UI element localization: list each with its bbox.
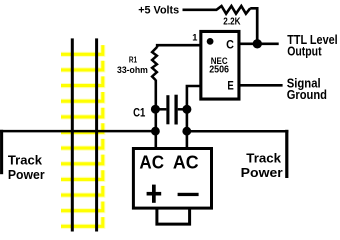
optocoupler U1 NEC 2506	[201, 31, 239, 99]
node dot track left	[151, 127, 160, 136]
wire E pin signal ground	[241, 84, 283, 87]
plus terminal	[147, 192, 162, 196]
AC bottom tab	[157, 209, 190, 224]
wire track power left vertical stub	[0, 130, 3, 174]
svg-text:C: C	[226, 39, 234, 51]
svg-text:1: 1	[192, 33, 197, 43]
wire R1 to AC left	[155, 80, 158, 150]
node dot C1 left	[151, 105, 160, 114]
minus terminal	[178, 193, 199, 196]
svg-text:R1: R1	[129, 55, 137, 65]
wire pin2 to AC right	[187, 86, 201, 150]
wire pin1 to R1	[157, 45, 200, 47]
wire track power right horizontal	[187, 130, 289, 133]
track ties	[61, 45, 103, 226]
svg-text:2506: 2506	[209, 65, 229, 76]
node dot track right	[182, 127, 191, 136]
svg-text:C1: C1	[133, 106, 146, 119]
svg-text:+5 Volts: +5 Volts	[138, 5, 179, 17]
node dot C1 right	[182, 105, 191, 114]
svg-text:E: E	[227, 81, 234, 93]
pin 1 marker dot	[207, 38, 214, 45]
svg-text:AC: AC	[139, 151, 164, 172]
wire C pin TTL output	[241, 42, 279, 45]
track rail right	[95, 38, 98, 231]
svg-text:Ground: Ground	[287, 88, 327, 102]
wire R2 to node C	[250, 8, 257, 44]
svg-text:2.2K: 2.2K	[223, 17, 241, 28]
track rail left	[71, 38, 74, 231]
svg-text:Output: Output	[287, 45, 322, 59]
svg-text:33-ohm: 33-ohm	[117, 65, 148, 75]
node dot TTL	[253, 39, 262, 48]
capacitor C1	[156, 108, 167, 111]
svg-text:Track: Track	[8, 153, 43, 168]
svg-text:Track: Track	[246, 151, 282, 166]
svg-text:AC: AC	[173, 151, 199, 172]
wire +5V	[183, 8, 218, 11]
wire track power right vertical	[285, 130, 288, 178]
wire track power left horizontal	[0, 130, 156, 133]
svg-text:Power: Power	[8, 167, 45, 182]
resistor R1 33-ohm	[152, 47, 157, 80]
resistor R2 2.2K	[217, 6, 251, 14]
AC source box	[133, 149, 211, 209]
svg-text:Power: Power	[241, 165, 283, 180]
